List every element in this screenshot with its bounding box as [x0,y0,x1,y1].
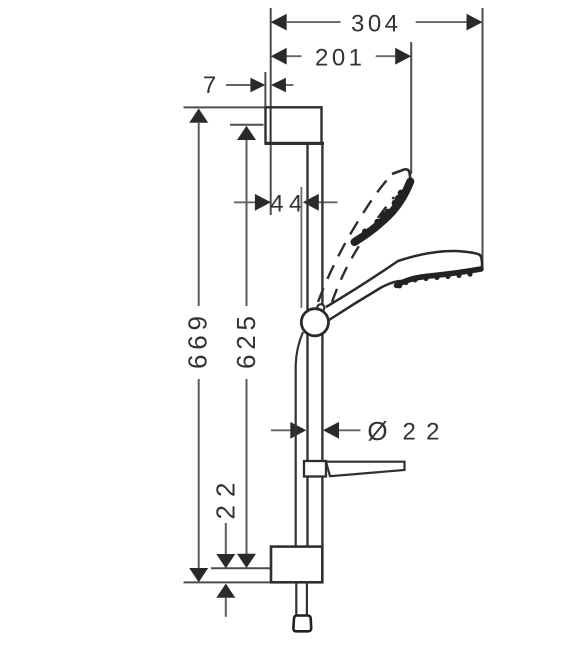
dashed position spray face [355,182,411,243]
dashed hand shower inner curve (raised position) [332,197,394,302]
dimension 22 (bottom offset) [211,483,241,617]
svg-text:Ø: Ø [367,416,387,446]
wire: bracket edge extension line (for dim 7) [264,72,266,107]
wall bar right edge [321,144,323,547]
dimension 7 [203,72,294,99]
dashed hand shower outer curve (raised position) [318,174,393,303]
wall bar left edge [306,144,308,547]
dashed position head top edge and right corner [392,169,411,180]
pivot knob bump [317,304,324,311]
shower hose below bottom bracket [296,582,307,615]
wire: wall reference extension line [270,8,272,215]
hand shower handle and head (solid) [326,251,482,320]
svg-text:669: 669 [183,316,213,369]
dimension diameter 22 [271,416,440,446]
svg-text:304: 304 [351,10,398,37]
top wall bracket [265,107,325,143]
wire: extension line of dim 44 (to slider left edge) [300,187,302,308]
wire: top extension line of dim 669 [184,106,266,108]
soap dish tray [326,462,405,477]
solid head spray face [397,269,482,289]
dimension 201 [271,44,412,71]
slider ball [301,309,328,336]
hose conical fitting [293,616,311,632]
dimension 44 [234,191,338,218]
wire: right extension line of dim 201 [410,42,412,174]
shower hose upper curve [296,332,303,547]
wire: right extension line of dim 304 [482,8,484,268]
dimension 625 [231,126,261,568]
dimension 304 [271,10,483,37]
wire: top extension line of dim 625 [230,124,264,126]
bottom wall bracket [271,547,322,583]
dimension 669 [183,109,213,583]
svg-text:625: 625 [231,316,261,369]
wire: lower extension line (top of bottom bracket) [211,567,271,569]
svg-text:201: 201 [315,44,362,71]
soap dish clamp [304,461,326,477]
wire: bottom extension line of dim 669 [184,581,271,583]
svg-text:7: 7 [203,72,216,99]
